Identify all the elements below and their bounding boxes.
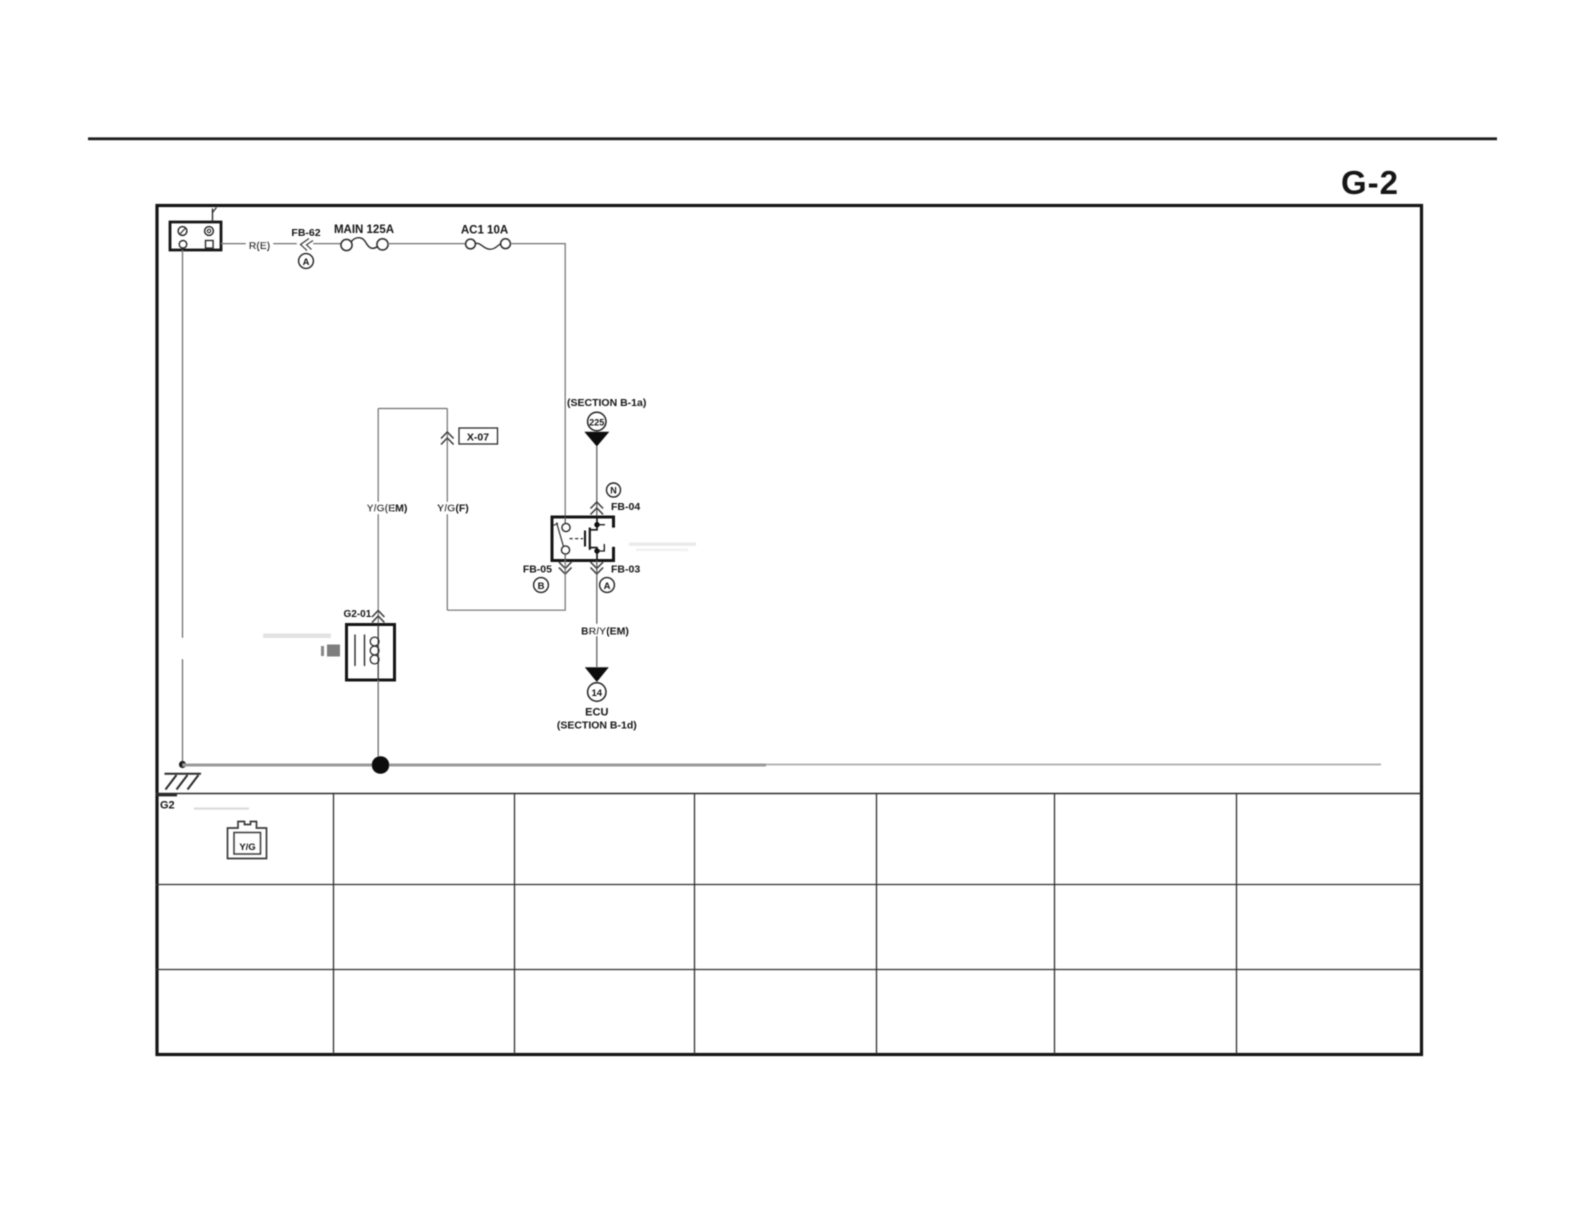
in-line connector FB-62 (chevrons on wire) <box>297 237 313 251</box>
wire from section B-1a label <box>567 397 646 409</box>
fuse AC1 10A symbol <box>466 239 511 249</box>
svg-text:Y/G: Y/G <box>239 842 255 853</box>
stub above battery box <box>213 208 217 223</box>
svg-text:(SECTION B-1a): (SECTION B-1a) <box>567 397 646 409</box>
svg-text:AC1 10A: AC1 10A <box>461 225 508 237</box>
svg-text:A: A <box>604 581 611 592</box>
wire label Y/G(F) <box>437 502 469 515</box>
page top rule <box>88 137 1497 140</box>
ECU label <box>585 707 608 719</box>
svg-text:FB-05: FB-05 <box>523 564 552 576</box>
erased label fragments left of G2-01 <box>263 634 340 657</box>
relay switch contact upper <box>562 517 570 532</box>
ground bus (thick segment) <box>183 764 767 767</box>
relay internal node dot bottom <box>594 548 599 553</box>
wire label Y/G(EM) <box>365 502 407 515</box>
table column line 2 <box>514 794 516 1055</box>
device G2-01 (solenoid load) box <box>347 625 395 681</box>
table top border <box>156 793 1422 795</box>
FB-04 label <box>611 501 640 513</box>
wire: battery down leg (lower segment) <box>182 659 184 764</box>
relay U1 (fuel pump relay, semiconductor type) <box>552 517 614 561</box>
table column line 1 <box>333 794 335 1055</box>
fuse AC1 10A label <box>461 225 508 237</box>
table column line 4 <box>876 794 878 1055</box>
G2-01 coil winding <box>370 625 379 681</box>
chevrons on relay pin FB-05 <box>559 562 572 574</box>
svg-text:Y/G(F): Y/G(F) <box>437 503 469 515</box>
svg-text:R(E): R(E) <box>249 240 271 252</box>
ground symbol <box>165 774 202 790</box>
erased label smudge right of relay <box>629 543 696 552</box>
chevrons on relay pin FB-03 <box>591 562 604 574</box>
relay transistor channel bar <box>589 528 591 550</box>
node 225 circle <box>588 412 606 430</box>
battery / power junction box B+ <box>170 222 221 250</box>
wire: Y/G(F) riser <box>446 409 448 611</box>
node 14 circle <box>588 683 606 701</box>
erased gap on battery down leg <box>176 638 216 659</box>
relay transistor drain link <box>590 517 597 530</box>
FB-05 label <box>523 564 552 576</box>
ground net label G2 <box>156 794 249 812</box>
page title G-2 <box>1341 164 1399 201</box>
fusible link MAIN 125A symbol <box>341 238 388 251</box>
ground bus (thin segment) <box>766 764 1381 766</box>
svg-text:FB-03: FB-03 <box>611 564 640 576</box>
svg-text:G2: G2 <box>160 800 175 812</box>
wire: battery to fuse row <box>221 243 342 245</box>
svg-text:B: B <box>538 581 545 592</box>
wire: top link between risers <box>378 408 447 410</box>
svg-text:BR/Y(EM): BR/Y(EM) <box>581 626 629 638</box>
relay transistor gate bar <box>584 531 586 547</box>
table column line 5 <box>1054 794 1056 1055</box>
connector circle B <box>534 578 549 593</box>
diagram outer frame <box>157 206 1422 1055</box>
relay internal node dot top <box>594 522 599 527</box>
wire: arrow to relay pin FB-04 <box>596 446 598 517</box>
connector circle A (FB-03) <box>600 578 615 593</box>
battery terminal pin 3 (small circle) <box>179 241 187 249</box>
ground bus junction dot at battery leg <box>179 761 186 768</box>
connector circle N <box>607 483 621 497</box>
incoming feed arrow (filled triangle) <box>584 432 609 447</box>
svg-text:FB-62: FB-62 <box>291 227 320 239</box>
battery terminal pin 4 (small square) <box>206 241 214 249</box>
FB-62 label <box>291 227 320 239</box>
svg-text:N: N <box>610 486 617 496</box>
wire: AC1 to corner and down to relay <box>510 244 565 517</box>
wire: G2-01 to ground bus <box>377 680 379 764</box>
connector circle A under FB-62 <box>299 254 314 269</box>
relay control dashed link <box>570 538 584 540</box>
wire: battery down leg (upper segment) <box>182 250 184 638</box>
wire: MAIN to AC1 <box>388 243 466 245</box>
wire label R(E) <box>246 238 273 252</box>
X-07 connector label box <box>459 428 498 444</box>
erased patch over relay right border <box>609 528 618 547</box>
G2-01 internal bar 2 <box>364 635 366 667</box>
chevrons on relay pin FB-04 <box>591 502 604 515</box>
relay transistor source link <box>590 548 597 561</box>
junction dot G2-01 to bus <box>372 756 390 774</box>
table column line 6 <box>1236 794 1238 1055</box>
relay internal stub right of top dot <box>597 524 605 526</box>
FB-03 label <box>611 564 640 576</box>
relay internal hook bottom right <box>597 544 604 551</box>
svg-text:Y/G(EM): Y/G(EM) <box>367 503 408 515</box>
connector pictograph (G2 eyelet) with wire colour Y/G <box>228 822 267 859</box>
outgoing arrow to ECU (filled triangle) <box>585 667 609 682</box>
chevrons at G2-01 pin <box>372 611 384 623</box>
svg-text:A: A <box>303 257 310 268</box>
wire: relay FB-03 down (BR/Y) <box>596 561 598 668</box>
battery terminal pin 2 (double circle) <box>205 227 214 236</box>
svg-text:14: 14 <box>592 688 603 699</box>
svg-text:MAIN 125A: MAIN 125A <box>334 224 394 236</box>
chevrons at in-line connector X-07 <box>441 432 454 445</box>
battery terminal pin 1 (circle with slash) <box>178 227 187 236</box>
relay switch contact lower <box>561 546 569 561</box>
fusible link MAIN 125A label <box>334 224 394 236</box>
table column line 3 <box>694 794 696 1055</box>
relay switch lever <box>553 523 564 547</box>
svg-text:X-07: X-07 <box>467 432 489 444</box>
svg-text:ECU: ECU <box>585 707 608 719</box>
table row line 1 <box>156 884 1422 886</box>
svg-text:225: 225 <box>589 417 604 427</box>
table row line 2 <box>156 969 1422 971</box>
section B-1d label <box>557 720 637 732</box>
wire: relay FB-05 down and left to Y/G(F) <box>447 561 565 611</box>
G2-01 label <box>344 609 372 620</box>
wire label BR/Y(EM) <box>581 624 629 638</box>
wire: Y/G(EM) riser <box>377 409 379 625</box>
G2-01 internal bar 1 <box>354 635 356 667</box>
svg-text:G2-01: G2-01 <box>344 609 372 620</box>
svg-text:FB-04: FB-04 <box>611 501 640 513</box>
svg-text:G-2: G-2 <box>1341 164 1399 201</box>
svg-text:(SECTION B-1d): (SECTION B-1d) <box>557 720 637 732</box>
